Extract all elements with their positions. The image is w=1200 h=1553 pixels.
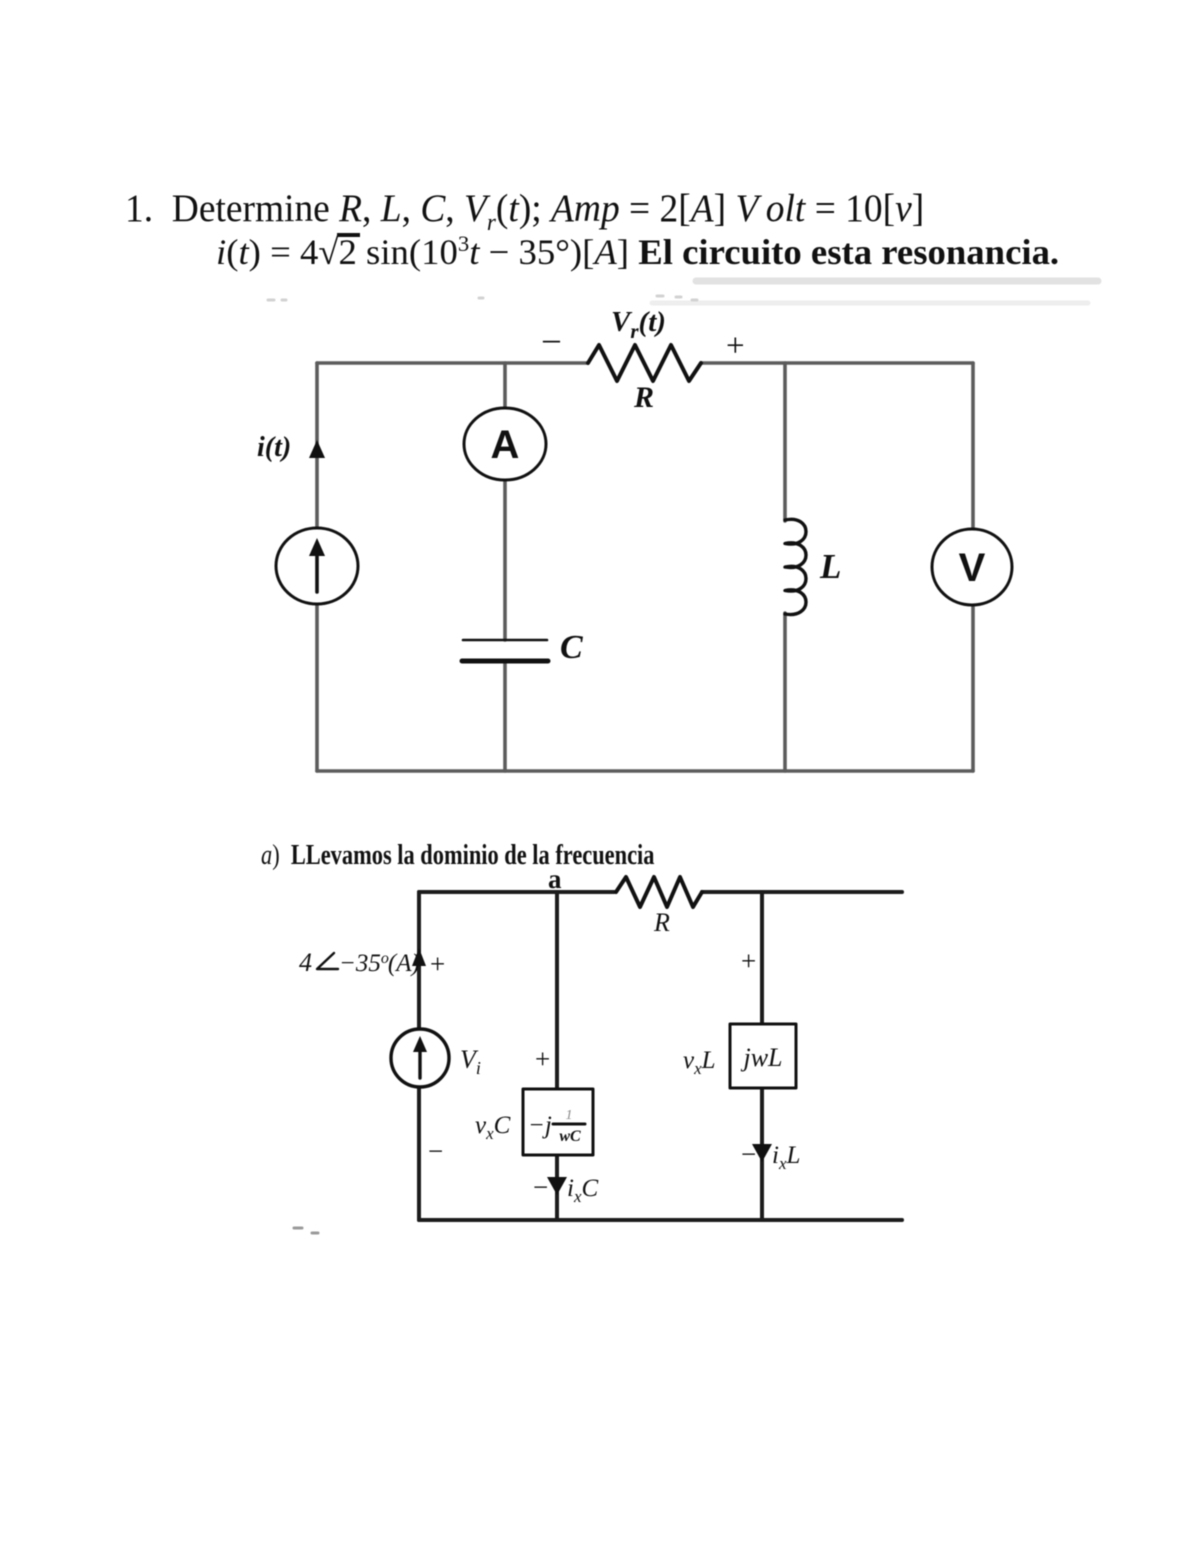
svg-text:4: 4 [299, 948, 312, 977]
svg-text:−: − [533, 1172, 548, 1202]
label source phasor 4angle-35(A) [299, 948, 420, 977]
svg-text:L: L [819, 547, 841, 586]
svg-text:+: + [726, 328, 745, 364]
svg-text:1: 1 [566, 1108, 573, 1123]
svg-text:R: R [633, 381, 654, 414]
svg-text:−: − [428, 1136, 443, 1166]
svg-text:vxL: vxL [683, 1047, 716, 1078]
ammeter A [464, 408, 546, 480]
wire top-left (top node to resistor) [317, 361, 588, 365]
radical vinculum over the 2 [337, 233, 360, 237]
arrowhead i(t) on left wire [309, 440, 325, 458]
wire bottom [317, 769, 973, 773]
current source I1 (circle with up arrow) [276, 528, 358, 604]
caption a) frequency-domain [261, 842, 654, 870]
svg-text:−: − [741, 1139, 756, 1169]
svg-text:wC: wC [559, 1128, 581, 1145]
problem statement line 2 [216, 233, 1059, 270]
wire capacitor branch [555, 892, 559, 1220]
wire top-right (resistor to right corner) [701, 361, 973, 365]
impedance box -jm1/wC [523, 1089, 593, 1155]
svg-text:+: + [430, 949, 445, 979]
wire left branch (source) [417, 892, 421, 1220]
svg-text:a: a [548, 864, 562, 894]
svg-text:jwL: jwL [740, 1043, 782, 1072]
resistor R (circuit 2) [616, 877, 702, 907]
wire inductor branch [783, 363, 787, 771]
svg-text:R: R [653, 908, 670, 937]
svg-text:−: − [541, 322, 562, 363]
wire top-left (source to node a) [419, 890, 614, 894]
voltmeter V [932, 529, 1012, 605]
svg-text:+: + [741, 946, 756, 976]
inductor L (coil) [785, 519, 806, 614]
svg-text:−35o(A): −35o(A) [339, 950, 420, 977]
wire bottom (circuit 2) [419, 1218, 902, 1222]
arrowhead on source wire top [412, 948, 426, 966]
svg-text:ixC: ixC [567, 1175, 599, 1206]
impedance box jwL [730, 1024, 796, 1088]
svg-text:A: A [491, 423, 520, 467]
svg-text:i(t): i(t) [257, 432, 291, 463]
wire top-right (resistor to right end) [702, 890, 902, 894]
resistor R (circuit 1) [588, 345, 701, 381]
current source I2 (circle with up arrow) [391, 1029, 449, 1087]
svg-text:ixL: ixL [772, 1142, 800, 1173]
svg-text:Vr(t): Vr(t) [611, 306, 666, 343]
capacitor C (circuit 1) [462, 640, 548, 661]
wire left branch [315, 363, 319, 771]
svg-text:vxC: vxC [475, 1112, 511, 1143]
svg-text:Vi: Vi [460, 1045, 481, 1078]
wire inductor branch [760, 892, 764, 1220]
problem statement line 1 [125, 189, 924, 235]
svg-text:−j: −j [528, 1112, 552, 1139]
svg-text:C: C [560, 629, 583, 666]
svg-text:+: + [535, 1044, 550, 1074]
wire right branch (voltmeter) [971, 363, 975, 771]
wire ammeter/capacitor branch [503, 363, 507, 771]
svg-text:V: V [959, 546, 986, 590]
